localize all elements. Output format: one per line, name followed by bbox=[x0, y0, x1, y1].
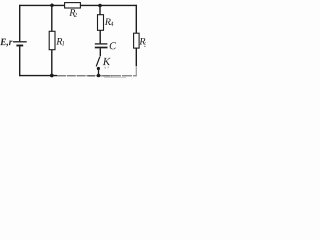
wire: left rail upper (to battery) bbox=[19, 5, 21, 42]
wire: R4 branch upper bbox=[99, 5, 101, 15]
wire: bottom rail faded right segment bbox=[100, 75, 137, 77]
switch K contact dot bbox=[97, 67, 100, 70]
wire: R4 box to capacitor bbox=[99, 30, 101, 43]
label R1 bbox=[56, 38, 62, 45]
battery E long plate bbox=[13, 41, 27, 43]
label E,r (battery) bbox=[0, 39, 12, 47]
battery E short plate bbox=[16, 45, 23, 47]
wire: bottom rail dark left segment bbox=[19, 75, 57, 77]
node: top junction of R1 branch bbox=[50, 4, 54, 8]
resistor R1 box bbox=[49, 31, 55, 49]
node: bottom junction of switch branch bbox=[97, 74, 101, 78]
capacitor C bottom plate bbox=[95, 47, 108, 49]
label R4 bbox=[105, 18, 111, 25]
label R3 bbox=[139, 38, 145, 45]
scan speckle above bottom rail near K 2 bbox=[108, 67, 109, 69]
wire: right rail bottom faded bbox=[135, 66, 137, 76]
switch K blade bbox=[96, 57, 100, 67]
scan bleed-through fuzz below bottom rail bbox=[104, 77, 126, 78]
wire: bottom rail faded middle segment bbox=[57, 75, 100, 77]
wire: top rail bbox=[19, 4, 137, 6]
label R4 subscript 4 bbox=[110, 22, 113, 26]
wire: right rail upper (to R3) bbox=[135, 5, 137, 34]
label K (switch) bbox=[103, 58, 111, 65]
scan speckle above bottom rail near K bbox=[105, 67, 106, 69]
wire: R1 branch upper bbox=[51, 5, 53, 32]
wire: capacitor to switch bbox=[99, 48, 101, 56]
wire: switch to bottom rail bbox=[98, 69, 100, 76]
wire: R1 branch lower bbox=[51, 50, 53, 76]
resistor R2 box (inline on top rail) bbox=[65, 3, 81, 8]
background bbox=[0, 0, 146, 78]
scan smudge on bottom rail left of switch node bbox=[88, 75, 95, 77]
resistor R4 box bbox=[98, 15, 104, 31]
resistor R3 box bbox=[134, 33, 140, 48]
label R1 subscript 1 bbox=[62, 41, 64, 45]
label C (capacitor) bbox=[110, 42, 116, 49]
label R2 subscript 2 bbox=[74, 13, 77, 17]
capacitor C top plate bbox=[95, 43, 108, 45]
scan smudge on bottom rail right of switch node bbox=[103, 75, 112, 77]
node: bottom junction of R1 branch bbox=[50, 74, 54, 78]
label R3 subscript 3 bbox=[144, 42, 147, 46]
node: top junction of R4 branch bbox=[98, 4, 102, 8]
wire: right rail lower (R3 to bottom) bbox=[135, 48, 137, 66]
label R2 bbox=[69, 9, 75, 16]
wire: left rail lower (battery to bottom) bbox=[19, 46, 21, 76]
